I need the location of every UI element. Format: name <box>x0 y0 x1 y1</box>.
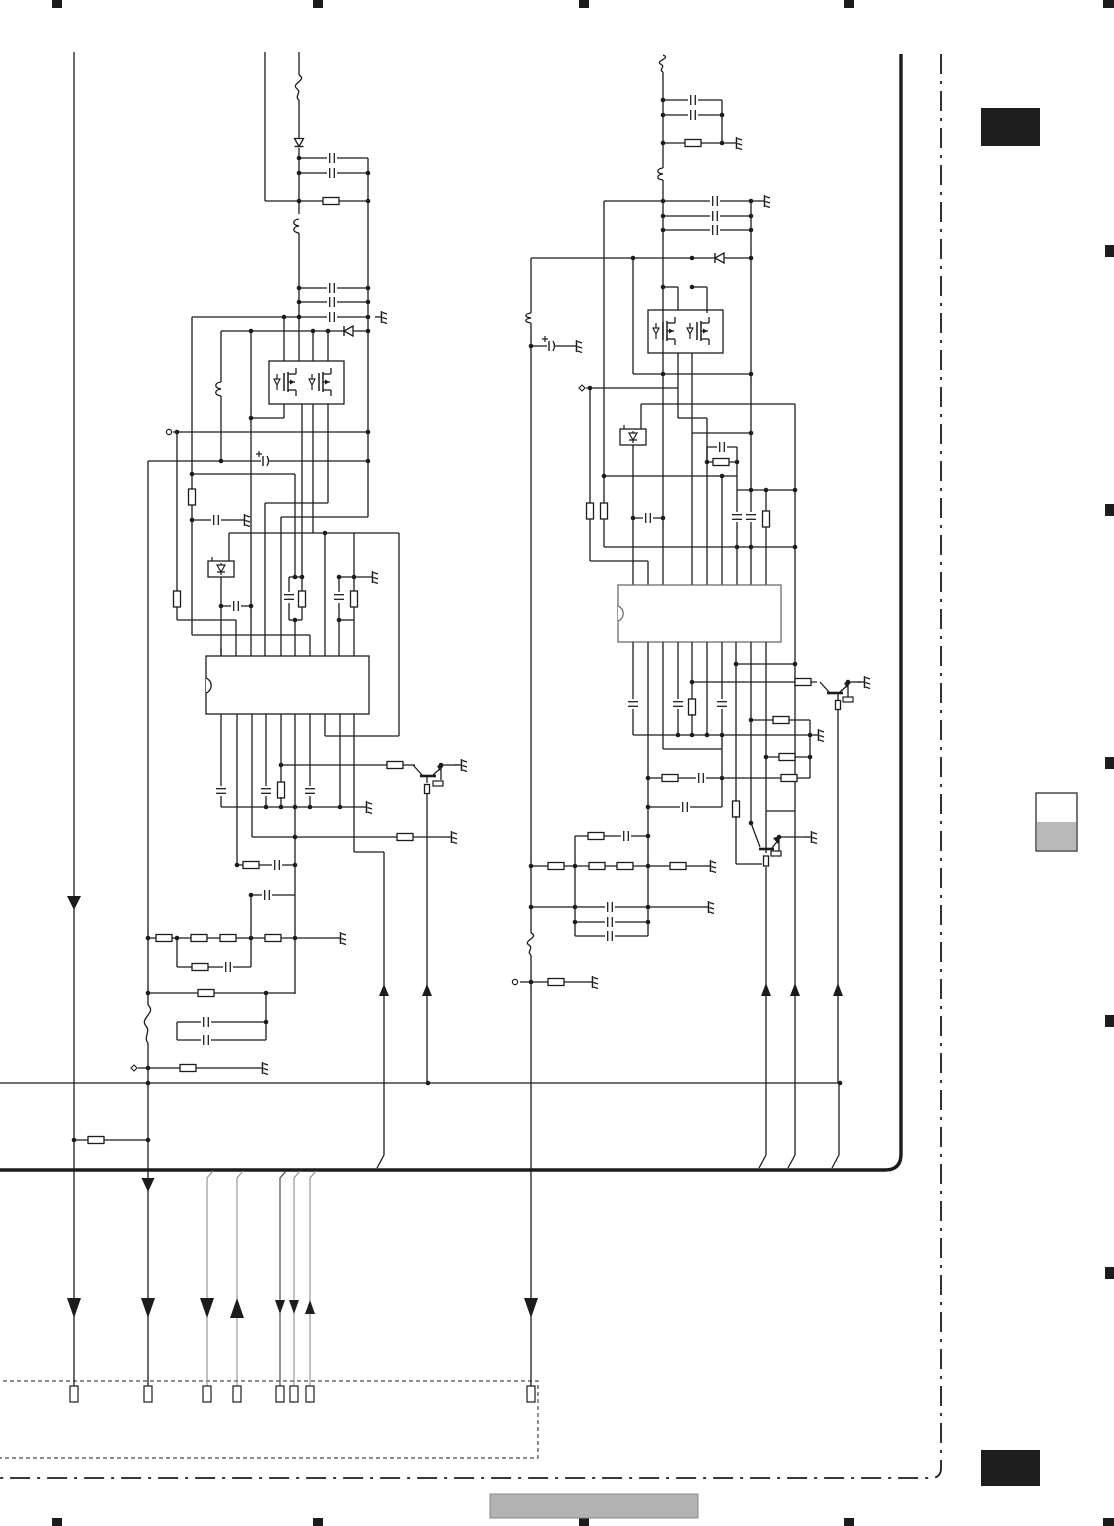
node 368,461 <box>366 459 371 464</box>
arrow up x310 thin <box>305 1300 315 1314</box>
wire x722 gnd2 <box>721 709 723 807</box>
resistor R12 <box>191 935 207 942</box>
IC1 pin x340 <box>338 620 340 656</box>
capacitor C17 <box>201 1017 211 1027</box>
node 148,1140 <box>146 1138 151 1143</box>
wire x766 down <box>765 867 767 1155</box>
node 368,317 <box>366 315 371 320</box>
Q1 emitter loop <box>440 766 442 780</box>
node 795,664 <box>793 662 798 667</box>
ground y907 <box>702 901 714 914</box>
row y302 <box>299 301 368 303</box>
node 148,938 <box>146 936 151 941</box>
resistor R32 <box>781 775 797 782</box>
wire z1 top <box>228 533 230 561</box>
op-amp IC1 box <box>206 656 369 714</box>
wire x368 ext <box>367 461 369 517</box>
arrow up x795 <box>790 983 800 996</box>
open terminal 986 <box>512 979 517 984</box>
connector pin box x207 <box>203 1386 211 1402</box>
node 266,1022 <box>264 1020 269 1025</box>
node 251,895 <box>249 893 254 898</box>
legend box right (white/gray) <box>1036 793 1077 851</box>
node 192,474 <box>190 472 195 477</box>
node 663,518 <box>661 516 666 521</box>
row y922 r <box>575 921 648 923</box>
capacitor C3 <box>327 283 337 293</box>
arrow down x148 low <box>141 1298 155 1318</box>
block out x328 <box>327 404 329 503</box>
row y606 cap <box>221 605 251 607</box>
resistor R24 vert <box>763 511 770 527</box>
wire x604 low <box>603 519 605 547</box>
crop square bottom 2 <box>313 1518 323 1526</box>
wire x192 lower <box>191 505 193 635</box>
node 310,807 <box>308 805 313 810</box>
node 751,433 <box>749 431 754 436</box>
node 736,664 <box>734 662 739 667</box>
resistor R7 <box>387 762 403 769</box>
resistor R5 vert <box>351 591 358 607</box>
node 281,807 <box>279 805 284 810</box>
row y864 <box>736 863 762 865</box>
capacitor C18 <box>201 1035 211 1045</box>
IC2 pin-b x633 <box>632 642 634 700</box>
arrow down x148 below frame <box>142 1178 155 1192</box>
node 368,432 <box>366 430 371 435</box>
row y418 gate tie <box>251 417 284 419</box>
signal line below frame x237 <box>237 1171 243 1386</box>
IC2 pin-b x736 <box>735 642 737 802</box>
node 707,735 <box>705 733 710 738</box>
wire x766 seg <box>765 490 767 511</box>
resistor R16 <box>198 990 214 997</box>
node 251,418 <box>249 416 254 421</box>
crop square top 1 <box>52 0 62 8</box>
resistor R10 <box>397 834 413 841</box>
row y936 r <box>575 935 648 937</box>
crop square bottom 1 <box>52 1518 62 1526</box>
IC2 pin-b x751 <box>750 642 752 823</box>
resistor R29 <box>773 717 789 724</box>
pair2 res leg <box>353 577 355 591</box>
node 531,986 <box>529 980 534 985</box>
resistor R39 <box>617 863 633 870</box>
dash-dot page border <box>0 54 941 1478</box>
wire x722 top <box>721 100 723 143</box>
node 692,287 <box>690 285 695 290</box>
node 575,866 <box>573 864 578 869</box>
connector pin box x310 <box>306 1386 314 1402</box>
IC1 pin-b x354 <box>353 714 355 852</box>
wire x221 gnd <box>220 796 222 807</box>
diamond terminal 388 <box>579 385 585 391</box>
rail x751 main <box>750 201 752 585</box>
row y811 <box>766 810 795 812</box>
node 795,490 <box>793 488 798 493</box>
row y388 r <box>586 387 678 389</box>
node 339,620 <box>337 618 342 623</box>
capacitor C36 <box>605 902 615 912</box>
crop square right edge 3 <box>1105 757 1114 769</box>
node 251,331 <box>249 329 254 334</box>
row y201 resistor link <box>265 200 368 202</box>
long row y1083 <box>0 1082 840 1084</box>
rail x531 lower <box>530 955 532 1386</box>
op-amp IC2 box <box>618 585 781 642</box>
node 648,922 <box>646 920 651 925</box>
capacitor C29 on x751 <box>746 512 756 522</box>
wire x590 low <box>589 519 591 561</box>
inductor L3 <box>658 168 663 180</box>
row y907 r <box>531 906 702 908</box>
node 766,757 <box>764 755 769 760</box>
node 722,143 <box>720 141 725 146</box>
node 299,288 <box>297 286 302 291</box>
IC1 pin x265b <box>264 503 266 656</box>
resistor R3 vert x192 <box>189 489 196 505</box>
crop square top 3 <box>579 0 589 8</box>
capacitor C20 <box>688 95 698 105</box>
connector pin box x294 <box>290 1386 298 1402</box>
capacitor C32 vert <box>717 699 727 709</box>
gate bracket A <box>663 286 678 288</box>
IC2 pin-b x663 <box>662 642 664 749</box>
node 575,907 <box>573 905 578 910</box>
wire z2 bottom <box>632 445 634 585</box>
node 328,331 <box>326 329 331 334</box>
row y230 r <box>663 229 751 231</box>
row y561 <box>590 560 648 562</box>
resistor R36 small horiz <box>771 851 781 856</box>
resistor R20 <box>685 140 701 147</box>
node 251,606 <box>249 604 254 609</box>
row y967 <box>177 966 251 968</box>
transistor Q1 <box>413 764 443 776</box>
diode D1 (down) <box>295 139 304 147</box>
node 368,288 <box>366 286 371 291</box>
node 299,173 <box>297 171 302 176</box>
pair1 bottom bridge <box>289 619 302 621</box>
node 299,302 <box>297 300 302 305</box>
row y807 r <box>648 806 722 808</box>
node 284,317 <box>282 315 287 320</box>
IC1 pin x296 <box>294 620 296 656</box>
IC2 pin-b x678 <box>677 642 679 700</box>
node 368,173 <box>366 171 371 176</box>
connector pin box x531 <box>527 1386 535 1402</box>
resistor R13 <box>220 935 236 942</box>
capacitor C30 vert <box>628 699 638 709</box>
connector pin box x280 <box>276 1386 284 1402</box>
crop square bottom 3 <box>579 1518 589 1526</box>
resistor R30 <box>779 754 795 761</box>
row y837 <box>252 836 445 838</box>
node 648,836 <box>646 834 651 839</box>
rail x795 lower <box>794 811 796 1155</box>
node 295,807 <box>293 805 298 810</box>
node 295,620 <box>293 618 298 623</box>
dashed connector box <box>0 1381 538 1458</box>
wire x266 gnd <box>265 796 267 807</box>
row y418 jog <box>678 417 707 419</box>
node 295,865 <box>293 863 298 868</box>
node 795,547 <box>793 545 798 550</box>
row y288 <box>299 287 368 289</box>
Q3 emitter loop <box>847 683 849 697</box>
node 148,1068 <box>146 1066 151 1071</box>
transistor Q3 <box>820 681 850 693</box>
row y331 <box>221 330 368 332</box>
wire x281 gnd <box>280 797 282 807</box>
crop square top-right corner <box>1103 0 1114 8</box>
wire Q3 emitter <box>850 681 860 683</box>
node 281,765 <box>279 763 284 768</box>
capacitor C2 <box>327 168 337 178</box>
capacitor C1 <box>327 153 337 163</box>
row y115 <box>663 114 722 116</box>
wire left supply B mid <box>298 100 300 138</box>
row y533 <box>229 532 399 534</box>
gate wire x284 <box>283 317 285 361</box>
row y1068 <box>138 1067 256 1069</box>
IC2 pin-b x707 <box>706 642 708 735</box>
capacitor C31 vert <box>673 699 683 709</box>
row y620 <box>177 619 236 621</box>
wire x177 938-967 <box>176 938 178 967</box>
polarized cap C6 <box>256 451 269 466</box>
mosfet block Q20 box <box>648 310 723 353</box>
row y720 <box>751 719 810 721</box>
row y765 base feed <box>281 764 415 766</box>
diode D3 (left) <box>715 253 724 263</box>
IC1 pin x236 <box>235 620 237 656</box>
IC2 pin x707 <box>706 418 708 585</box>
node 692,735 <box>690 733 695 738</box>
arrow down x531 low <box>524 1298 538 1318</box>
node 604,476 <box>602 474 607 479</box>
resistor R6 vert <box>278 782 285 798</box>
resistor R14 <box>265 935 281 942</box>
thick frame border <box>0 54 901 1170</box>
wire x736 down <box>736 462 738 585</box>
node 648,807 <box>646 805 651 810</box>
capacitor C15 <box>262 890 272 900</box>
wire x604 <box>603 201 605 503</box>
node 751,258 <box>749 256 754 261</box>
wire x575 <box>574 836 576 936</box>
resistor R31 <box>662 775 678 782</box>
wire-break squiggle x531 <box>527 933 533 955</box>
row y201 r <box>604 200 758 202</box>
arrow up x838 <box>833 983 843 996</box>
node 663,287 <box>661 285 666 290</box>
arrow up x237 <box>230 1298 244 1318</box>
Q2 emitter loop <box>778 838 780 851</box>
node 810,735 <box>808 733 813 738</box>
capacitor C38 <box>605 931 615 941</box>
ground y201 r <box>758 195 770 208</box>
wire x663 mid <box>662 180 664 585</box>
node 221,606 <box>219 604 224 609</box>
capacitor C23 <box>710 211 720 221</box>
capacitor C33 <box>696 773 706 783</box>
wire z1 bottom <box>220 577 222 656</box>
ground y1068 <box>256 1062 268 1075</box>
IC1 pin x325 <box>324 533 326 656</box>
zener Z1 box <box>208 557 234 577</box>
node 692,682 <box>690 680 695 685</box>
signal line below frame x294 <box>294 1171 300 1386</box>
IC1 pin-b x310 <box>309 714 311 787</box>
signal line below frame x310 <box>310 1171 316 1386</box>
row y346 polcap <box>531 345 570 347</box>
crop square top 2 <box>313 0 323 8</box>
arrow up x427 <box>422 984 432 996</box>
node 648,866 <box>646 864 651 869</box>
cap bracket rows <box>177 1021 266 1023</box>
resistor R28 small horiz <box>843 697 853 702</box>
resistor R25 vert <box>689 699 696 715</box>
IC2 pin-b x648 <box>647 642 649 936</box>
node 722,778 <box>720 776 725 781</box>
pair1 cap leg <box>288 577 290 592</box>
capacitor C22 <box>710 196 720 206</box>
row y517 <box>281 516 368 518</box>
pair2 cap leg <box>338 577 340 592</box>
crop square bottom-right corner <box>1103 1518 1114 1526</box>
black label block top-right <box>981 108 1040 146</box>
row y852 <box>354 851 384 853</box>
row y1140 <box>74 1139 148 1141</box>
node 295,577 <box>293 575 298 580</box>
open terminal 432 <box>166 429 171 434</box>
ground y866 <box>704 860 716 873</box>
IC1 pin x221 <box>220 648 222 656</box>
capacitor C24 <box>710 225 720 235</box>
IC1 pin-b x295 <box>294 714 296 994</box>
IC2 pin-b x722 <box>721 642 723 700</box>
black label block bottom-right <box>981 1450 1040 1486</box>
row y432 terminal <box>173 431 368 433</box>
ground bus y735 r <box>633 734 812 736</box>
connector pin box x148 <box>144 1386 152 1402</box>
resistor R38 <box>589 863 605 870</box>
crop square right edge 4 <box>1105 1015 1114 1027</box>
wire x427 down <box>426 793 428 1083</box>
capacitor C8 <box>231 601 241 611</box>
arrow down x74 mid <box>67 896 81 910</box>
resistor R8 small <box>425 785 430 794</box>
wire right rail x368 <box>367 158 369 461</box>
ground pair2 <box>366 571 378 584</box>
node 266,993 <box>264 991 269 996</box>
resistor R22 vert <box>601 503 608 519</box>
arrow down x294 thin <box>289 1300 299 1314</box>
wire x313 into block <box>312 331 314 361</box>
resistor R11 <box>243 862 259 869</box>
node 810,757 <box>808 755 813 760</box>
resistor R18 <box>88 1137 104 1144</box>
resistor R35 small <box>764 856 769 866</box>
node 531,346 <box>529 344 534 349</box>
pair2 bottom bridge <box>339 619 354 621</box>
inductor L1 <box>294 219 299 233</box>
row y749 <box>663 748 722 750</box>
resistor R40 <box>670 863 686 870</box>
node 722,115 <box>720 113 725 118</box>
capacitor C9 vert <box>284 592 294 602</box>
rail x74 <box>73 52 75 1386</box>
IC1 pin-b x340 <box>339 714 341 807</box>
ground y143 <box>730 137 742 150</box>
wire x177 upper <box>176 432 178 592</box>
row y865 <box>237 864 295 866</box>
row y895 <box>251 894 295 896</box>
wire x328 into block <box>327 331 329 361</box>
wire x384 down <box>383 852 385 1155</box>
ground row317 <box>375 311 387 324</box>
gate bracket B <box>692 286 707 288</box>
arrow down x74 low <box>67 1298 81 1318</box>
capacitor C21 <box>688 110 698 120</box>
mosfet Q20a <box>653 317 675 345</box>
diode D2 (left) <box>344 326 353 336</box>
node 751,201 <box>749 199 754 204</box>
row y778 <box>648 777 810 779</box>
IC1 pin-b x281 <box>280 714 282 783</box>
capacitor C11 vert <box>216 786 226 796</box>
node 428,1083 <box>426 1081 431 1086</box>
block out x313 <box>312 404 314 533</box>
arrow down x207 <box>200 1298 214 1318</box>
node 368,302 <box>366 300 371 305</box>
row y993 <box>148 992 295 994</box>
wire x266 to bracket <box>265 993 267 1040</box>
resistor R37 <box>548 863 564 870</box>
node 766,490 <box>764 488 769 493</box>
wire x221 upper <box>220 331 222 382</box>
arrow down x280 thin <box>275 1300 285 1314</box>
node 722,735 <box>720 733 725 738</box>
wire x722 pin <box>721 476 723 585</box>
wire x810 <box>809 720 811 778</box>
pair2 top row <box>339 576 366 578</box>
row y374 r <box>633 373 751 375</box>
IC1 pin-b x252 <box>251 714 253 837</box>
row y736 loop bottom <box>325 735 399 737</box>
wire z2 top <box>640 404 642 429</box>
pair1 top row <box>289 576 302 578</box>
node 633,258 <box>631 256 636 261</box>
node 325,533 <box>323 531 328 536</box>
node 648,778 <box>646 776 651 781</box>
node 663,143 <box>661 141 666 146</box>
resistor R33 vert x736 <box>733 801 740 817</box>
block out x302 <box>301 404 303 577</box>
row y158 cap link <box>299 157 368 159</box>
node 663,374 <box>661 372 666 377</box>
ground y837 <box>445 831 457 844</box>
wire x633 gate <box>632 258 634 374</box>
row y518 cap <box>633 517 663 519</box>
node 736,462 <box>735 460 740 465</box>
pair r res row <box>707 461 737 463</box>
capacitor C27 <box>717 442 727 452</box>
row y836 base <box>575 835 648 837</box>
row y635 <box>192 634 310 636</box>
node 302,577 <box>300 575 305 580</box>
